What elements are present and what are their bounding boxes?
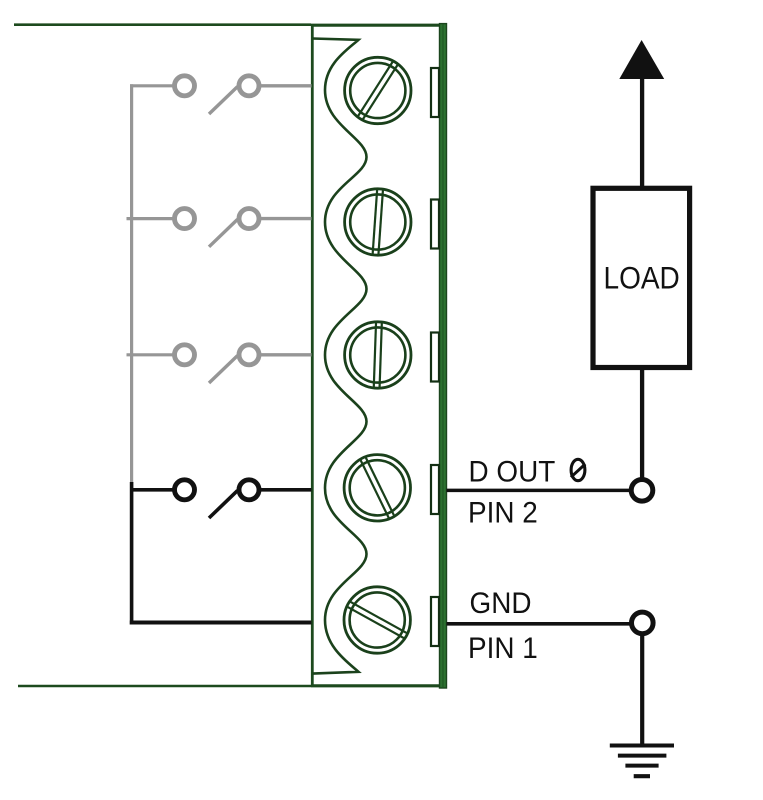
svg-text:PIN 2: PIN 2 [468, 497, 538, 530]
svg-text:LOAD: LOAD [604, 261, 680, 296]
svg-text:GND: GND [470, 587, 532, 620]
svg-text:D OUT: D OUT [469, 456, 556, 489]
svg-text:PIN 1: PIN 1 [468, 632, 538, 665]
